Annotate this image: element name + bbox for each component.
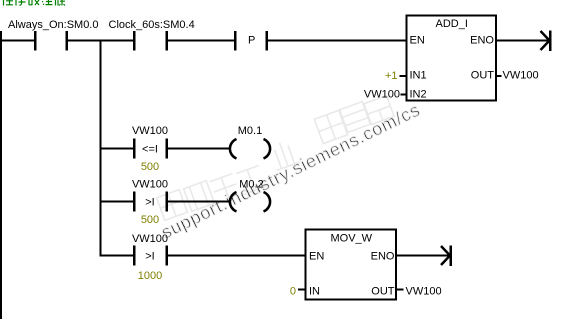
svg-text:M0.2: M0.2 [239,179,263,191]
svg-text:>I: >I [145,197,154,209]
svg-text:1000: 1000 [138,270,162,282]
svg-text:EN: EN [309,251,324,263]
svg-text:500: 500 [141,161,159,173]
svg-text:VW100: VW100 [364,89,400,101]
svg-text:ADD_I: ADD_I [436,18,468,30]
svg-text:+1: +1 [385,70,398,82]
svg-text:500: 500 [141,214,159,226]
svg-text:VW100: VW100 [503,70,539,82]
svg-text:P: P [248,35,255,47]
svg-text:M0.1: M0.1 [238,125,262,137]
svg-text:<=I: <=I [142,144,158,156]
svg-text:ENO: ENO [371,251,395,263]
svg-text:ENO: ENO [470,35,494,47]
svg-text:VW100: VW100 [406,286,442,298]
svg-text:0: 0 [290,286,296,298]
svg-text:IN2: IN2 [410,89,427,101]
svg-text:Always_On:SM0.0: Always_On:SM0.0 [8,19,98,31]
svg-text:VW100: VW100 [132,125,168,137]
svg-text:VW100: VW100 [132,179,168,191]
svg-text:>I: >I [145,251,154,263]
svg-text:IN1: IN1 [410,70,427,82]
svg-text:EN: EN [410,35,425,47]
svg-text:MOV_W: MOV_W [331,233,373,245]
svg-text:OUT: OUT [371,286,395,298]
svg-text:IN: IN [309,286,320,298]
svg-text:Clock_60s:SM0.4: Clock_60s:SM0.4 [109,19,195,31]
svg-text:OUT: OUT [471,70,495,82]
svg-text:VW100: VW100 [132,233,168,245]
